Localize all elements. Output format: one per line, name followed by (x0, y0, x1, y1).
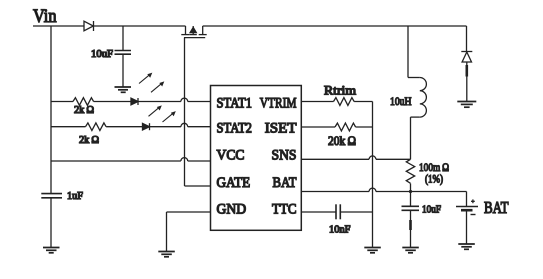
LED D4 arrows (149, 105, 176, 122)
wire L1 to SNS node (410, 117, 412, 159)
wire L1 top lead (408, 77, 420, 79)
IC U1 body (211, 86, 302, 231)
resistor R5 20k (335, 123, 356, 131)
svg-text:GATE: GATE (217, 175, 251, 191)
svg-text:Rtrim: Rtrim (324, 84, 356, 98)
wire R1 to LED D3 (94, 101, 131, 103)
wire STAT1 row from rail to R1 (51, 101, 73, 103)
wire D3 to STAT1 pin with hop (138, 98, 211, 101)
diode D1 (84, 21, 94, 31)
svg-text:VTRIM: VTRIM (260, 95, 297, 111)
wire C3 ground lead thick mark (409, 220, 412, 230)
svg-text:GND: GND (217, 202, 247, 218)
wire BAT node to C3 (410, 192, 412, 207)
battery BT1 (456, 207, 478, 215)
resistor R1 2k (73, 98, 94, 106)
node junction dot BAT/R4/C3 (409, 190, 412, 193)
ground below GND wire (158, 252, 175, 257)
capacitor C3 10uF (402, 206, 420, 210)
wire TTC pin to C4 (301, 211, 336, 213)
capacitor C1 10uF (115, 51, 132, 55)
inductor L1 (420, 78, 427, 118)
wire R5 to right vertical (356, 126, 373, 128)
wire D1 to MOSFET source (94, 25, 186, 27)
wire L1 bottom lead (411, 116, 420, 118)
svg-text:STAT2: STAT2 (217, 120, 253, 136)
svg-text:BAT: BAT (273, 175, 297, 191)
ground below C1 (115, 87, 132, 92)
svg-text:SNS: SNS (272, 147, 297, 163)
svg-text:100m Ω: 100m Ω (419, 160, 449, 174)
wire top rail from Vin to diode D1 (33, 25, 84, 27)
wire BAT row corner down to battery (466, 192, 468, 207)
ground below right vertical (364, 248, 381, 253)
ground below C3 (402, 248, 419, 253)
svg-text:Vin: Vin (33, 7, 57, 27)
svg-text:20k Ω: 20k Ω (328, 134, 356, 148)
wire R4 to BAT node (410, 184, 412, 192)
LED D4 (143, 123, 150, 130)
wire C3 to ground (410, 210, 412, 247)
wire C4 to right vertical (340, 211, 372, 213)
LED D3 arrows (139, 73, 164, 93)
svg-text:ISET: ISET (265, 120, 297, 136)
wire gate row into IC GATE pin (185, 185, 211, 187)
wire C1 to ground (122, 54, 124, 87)
wire R2 to LED D4 (106, 126, 142, 128)
wire C2 to ground (50, 198, 52, 248)
wire STAT2 row from rail to R2 (51, 126, 86, 128)
svg-text:BAT: BAT (484, 198, 509, 217)
svg-text:2k Ω: 2k Ω (74, 105, 94, 116)
svg-text:1uF: 1uF (67, 191, 83, 202)
svg-text:VCC: VCC (217, 147, 245, 163)
wire Q1 gate down to GATE pin row (184, 38, 186, 186)
wire top right corner down to diode D2 (466, 26, 468, 52)
wire Q1 drain to top right corner (203, 25, 467, 27)
capacitor C4 10nF (336, 204, 340, 219)
ground below D2 (457, 102, 476, 108)
resistor R2 2k (86, 123, 107, 131)
svg-text:2k Ω: 2k Ω (79, 135, 99, 146)
wire VCC row from rail to IC with hop (51, 158, 211, 161)
wire Vin left rail (50, 26, 52, 194)
svg-text:STAT1: STAT1 (217, 95, 253, 111)
svg-text:(1%): (1%) (425, 173, 443, 185)
LED D3 (131, 98, 138, 105)
wire GND down (166, 212, 168, 252)
wire Rtrim to right vertical (354, 101, 372, 103)
wire D2 ground lead thick mark (465, 65, 468, 77)
svg-text:TTC: TTC (272, 202, 297, 218)
ground below battery (458, 244, 475, 249)
capacitor C1 10uF top plate lead (122, 26, 124, 51)
ground below C2 (43, 248, 60, 253)
wire BAT row with hop (301, 188, 466, 191)
diode D2 (461, 52, 472, 63)
wire ISET pin to R20k (301, 126, 335, 128)
svg-text:10uF: 10uF (422, 204, 441, 215)
svg-text:10nF: 10nF (329, 225, 351, 236)
capacitor C2 1uF (41, 194, 62, 198)
battery BT1 plus sign (471, 199, 475, 203)
resistor R3 Rtrim (334, 98, 355, 106)
wire VTRIM pin to Rtrim (301, 101, 333, 103)
wire D4 to STAT2 pin with hop (150, 123, 211, 126)
wire right vertical Rtrim/20k/TTC to ground (372, 102, 374, 248)
resistor R4 100m (406, 159, 414, 183)
svg-text:10uF: 10uF (91, 49, 113, 60)
transistor Q1 P-MOSFET (181, 26, 206, 38)
svg-text:10uH: 10uH (390, 94, 412, 108)
wire SNS row with hop (301, 156, 410, 159)
wire GND pin to left (167, 211, 211, 213)
wire D2 to ground (466, 62, 468, 102)
wire battery to ground (466, 210, 468, 244)
wire top rail to inductor L1 (407, 26, 409, 78)
